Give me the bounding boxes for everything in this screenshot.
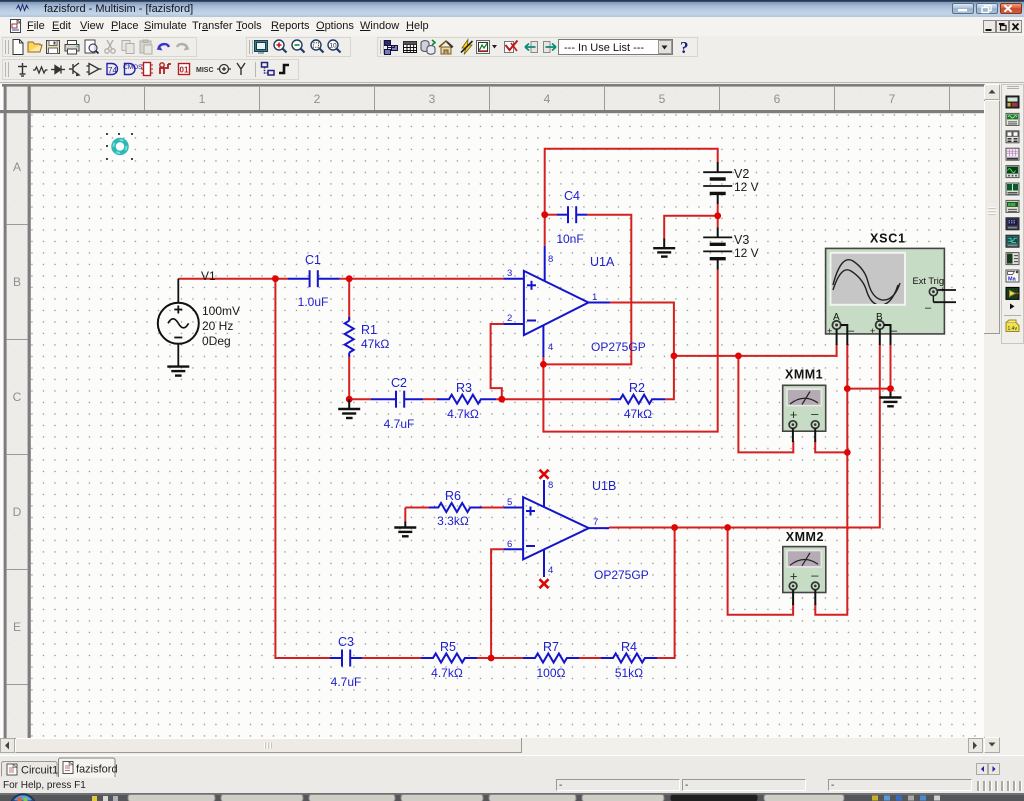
- svg-text:7: 7: [889, 92, 896, 106]
- capacitor C4: [557, 206, 587, 223]
- node V1/C1: [272, 275, 279, 282]
- wire U1B out node down to R4 right: [657, 528, 675, 659]
- wire V1 top to C1: [178, 278, 288, 280]
- icon: new file: [13, 40, 23, 55]
- scrollbar down arrow: [985, 738, 1000, 753]
- svg-text:6: 6: [507, 539, 512, 550]
- icon: copy (disabled): [122, 41, 134, 54]
- svg-text:3.3kΩ: 3.3kΩ: [437, 514, 469, 528]
- icon: place electromech Y: [237, 63, 245, 75]
- wire ground link A-/B-: [847, 388, 890, 390]
- svg-text:–: –: [925, 302, 932, 314]
- svg-text:12 V: 12 V: [734, 246, 759, 260]
- scrollbar up arrow: [985, 85, 1000, 100]
- op-amp U1B: [503, 480, 609, 577]
- svg-text:CMOS: CMOS: [123, 64, 143, 71]
- svg-text:2: 2: [314, 92, 321, 106]
- battery V3: [703, 228, 732, 270]
- svg-text:1: 1: [592, 292, 597, 303]
- svg-text:47kΩ: 47kΩ: [361, 337, 389, 351]
- icon: place source: [18, 63, 27, 76]
- icon: place transistor: [69, 63, 79, 76]
- instrument: wattmeter: [1006, 131, 1019, 143]
- svg-text:?: ?: [680, 38, 689, 57]
- resistor R6: [429, 503, 482, 512]
- svg-text:OP275GP: OP275GP: [594, 568, 649, 582]
- svg-text:+: +: [790, 407, 798, 422]
- task buttons: [128, 795, 844, 801]
- icon: grapher: [477, 41, 490, 54]
- ground near XSC1: [880, 392, 902, 406]
- svg-text:–: –: [891, 325, 898, 337]
- icon: hierarchy: [385, 41, 398, 55]
- start orb: [10, 794, 36, 801]
- svg-text:1.0uF: 1.0uF: [298, 295, 329, 309]
- svg-text:10: 10: [329, 43, 337, 50]
- svg-text:R2: R2: [629, 381, 645, 395]
- svg-text:8: 8: [548, 254, 553, 265]
- icon: open folder: [28, 42, 42, 52]
- icon: place indicator: [179, 64, 190, 75]
- battery V2: [703, 162, 732, 204]
- instrument: frequency counter: [1006, 200, 1019, 212]
- wire R6 left to ground: [405, 507, 429, 509]
- svg-text:4: 4: [548, 342, 553, 353]
- capacitor C3: [330, 650, 362, 667]
- svg-text:V3: V3: [734, 233, 749, 247]
- svg-text:+: +: [940, 285, 945, 294]
- sheet ruler bands: [6, 86, 984, 110]
- capacitor C1: [288, 270, 340, 287]
- svg-text:C: C: [13, 390, 22, 404]
- icon: cut (disabled): [105, 40, 115, 53]
- instrument: word generator: [1006, 218, 1019, 230]
- tab fazisford (active): [59, 758, 116, 777]
- dropdown arrow: [1010, 304, 1015, 310]
- svg-text:C3: C3: [338, 635, 354, 649]
- wire U1A output to R2 right: [610, 303, 674, 400]
- icon: print: [65, 41, 79, 55]
- resistor R5: [421, 654, 477, 663]
- svg-text:5: 5: [507, 497, 512, 508]
- wire C1 right to U1A pin3: [340, 278, 504, 280]
- instrument: bode plotter: [1006, 183, 1019, 195]
- node U1B out T: [671, 524, 678, 531]
- resistor R3: [437, 395, 496, 404]
- svg-text:R6: R6: [445, 489, 461, 503]
- wire feedback R3/R2 node to U1A pin2: [491, 324, 504, 399]
- svg-text:01: 01: [180, 66, 189, 75]
- quick launch icons: [92, 796, 97, 801]
- tab scroll arrows: [977, 764, 988, 775]
- icon: place RF: [217, 65, 231, 74]
- wire R3 right to R2 left: [496, 398, 610, 400]
- svg-text:4.7uF: 4.7uF: [331, 675, 362, 689]
- svg-text:--- In Use List ---: --- In Use List ---: [564, 42, 644, 54]
- icon: paste (disabled): [140, 40, 152, 54]
- wire pin6 riser: [491, 549, 503, 658]
- svg-text:V1: V1: [201, 269, 216, 283]
- instrument: oscilloscope: [1006, 148, 1019, 160]
- wire XSC1 B- down to ground: [890, 344, 892, 394]
- node pin4/V-: [540, 361, 547, 368]
- wire XSC1 B+ down to U1B out rail: [675, 344, 880, 528]
- wire C4 left lead: [545, 214, 557, 216]
- node XMM2+ tap: [724, 524, 731, 531]
- icon: component wizard house: [439, 41, 453, 54]
- icon: save floppy: [47, 41, 60, 54]
- svg-text:V2: V2: [734, 167, 749, 181]
- tray icons: [872, 796, 940, 801]
- svg-text:10nF: 10nF: [556, 232, 583, 246]
- wire R6 right to U1B pin5: [481, 507, 503, 509]
- capacitor C2: [371, 391, 423, 408]
- XMM1 terminal stubs: [793, 428, 815, 442]
- wire V1/C1 node down to C3 (bottom rail): [275, 279, 330, 658]
- node XMM1+ tap: [735, 353, 742, 360]
- svg-text:U1A: U1A: [590, 255, 615, 269]
- resistor R4: [601, 654, 657, 663]
- svg-text:6: 6: [774, 92, 781, 106]
- svg-text:R1: R1: [361, 323, 377, 337]
- XSC1 terminal stubs (black): [837, 325, 891, 345]
- svg-text:1.4v: 1.4v: [1008, 326, 1018, 332]
- node U1A out T: [671, 353, 678, 360]
- icon: simulate lightning: [461, 40, 473, 55]
- svg-text:7: 7: [593, 517, 598, 528]
- svg-text:A: A: [13, 160, 21, 174]
- node XMM1-/XMM2-: [844, 449, 851, 456]
- ground below R6: [394, 522, 416, 537]
- svg-text:888: 888: [1008, 202, 1016, 207]
- multimeter XMM2: [783, 547, 826, 593]
- instrument: logic converter: [1006, 253, 1019, 265]
- wire pin4 node down to V- rail to V3 bottom: [543, 270, 717, 432]
- XMM2 terminal stubs: [793, 590, 815, 605]
- svg-text:D: D: [13, 505, 22, 519]
- separator: [1004, 315, 1021, 317]
- svg-text:4.7kΩ: 4.7kΩ: [431, 666, 463, 680]
- icon: place TTL: [107, 64, 118, 76]
- wire R5 right to R7 left: [477, 657, 523, 659]
- instrument: multimeter: [1006, 96, 1019, 108]
- svg-text:+: +: [870, 326, 875, 336]
- wire V+ top rail from C4 node to V2: [545, 149, 718, 246]
- icon: place misc digital: [141, 63, 153, 76]
- svg-text:47kΩ: 47kΩ: [624, 407, 652, 421]
- sheet frame lines: [2, 84, 984, 87]
- svg-text:C4: C4: [564, 189, 580, 203]
- instruments toolbar handle: [1007, 87, 1019, 89]
- wire XMM1 minus: [815, 441, 847, 452]
- ground below V1: [167, 367, 189, 376]
- wire V2/V3 mid node to ground: [717, 204, 719, 228]
- ruler ticks: [6, 87, 950, 685]
- oscilloscope XSC1: [826, 248, 956, 337]
- svg-text:–: –: [848, 325, 855, 337]
- svg-text:–: –: [811, 406, 819, 421]
- V1 labels: [201, 269, 240, 348]
- multimeter XMM1: [783, 385, 826, 431]
- svg-text:R3: R3: [456, 381, 472, 395]
- icon: undo: [157, 43, 170, 51]
- scrollbar thumb: [985, 101, 1000, 334]
- icon: place mixed: [160, 63, 171, 74]
- icon: place CMOS: [123, 64, 143, 75]
- svg-text:100mV: 100mV: [202, 304, 240, 318]
- svg-text:R4: R4: [621, 640, 637, 654]
- node C1/R1/pin3: [346, 275, 353, 282]
- svg-text:20 Hz: 20 Hz: [202, 319, 233, 333]
- svg-text:XSC1: XSC1: [870, 232, 906, 246]
- wire ground node to C2 left: [349, 398, 371, 400]
- icon: zoom fit: [328, 40, 341, 53]
- h-scrollbar thumb: [16, 739, 522, 753]
- instrument: LabVIEW: [1006, 287, 1019, 299]
- icon: place analog (op-amp): [87, 64, 102, 75]
- svg-text:C2: C2: [391, 376, 407, 390]
- instrument: logic analyzer: [1006, 235, 1019, 247]
- svg-text:74: 74: [108, 66, 117, 75]
- wire U1B out stub: [609, 527, 675, 529]
- wire to XMM1 plus: [738, 356, 793, 453]
- svg-text:51kΩ: 51kΩ: [615, 666, 643, 680]
- instrument: 4ch scope: [1006, 166, 1019, 178]
- node R5/R7/pin6: [488, 655, 495, 662]
- node C4/V+: [541, 211, 548, 218]
- icon: database: [421, 40, 435, 54]
- icon: transfer forward: [544, 42, 557, 53]
- svg-text:Ma: Ma: [1008, 277, 1017, 283]
- svg-text:4: 4: [548, 565, 553, 576]
- icon: bus: [279, 65, 289, 73]
- ground below R1/C2: [338, 399, 360, 418]
- svg-text:C1: C1: [305, 253, 321, 267]
- AC source V1: [158, 279, 199, 367]
- icon: zoom in: [274, 40, 287, 53]
- ground between V2 V3: [653, 239, 675, 257]
- resistor R2: [611, 395, 666, 404]
- icon: transfer back: [525, 42, 538, 53]
- instrument: measurement probe: [1006, 320, 1019, 332]
- wire U1A output node to XSC1 A+: [674, 344, 837, 356]
- tab Circuit1: [2, 762, 58, 777]
- node R3/R2/fb: [498, 396, 505, 403]
- svg-text:3: 3: [429, 92, 436, 106]
- svg-text:E: E: [13, 620, 21, 634]
- svg-text:MISC: MISC: [196, 67, 214, 74]
- ruler numbers: [13, 92, 896, 634]
- svg-text:XMM2: XMM2: [786, 530, 824, 544]
- svg-text:4.7kΩ: 4.7kΩ: [447, 407, 479, 421]
- icon: ERC check: [505, 41, 518, 53]
- wire XMM2 plus branch: [728, 528, 794, 615]
- svg-text:OP275GP: OP275GP: [591, 340, 646, 354]
- svg-text:100Ω: 100Ω: [537, 666, 566, 680]
- svg-text:1: 1: [199, 92, 206, 106]
- resistor R1 (vertical): [345, 317, 354, 357]
- wire C4 right to pin4 node: [543, 215, 631, 365]
- toolbar group frames: [3, 38, 197, 57]
- icon: zoom out: [292, 40, 305, 53]
- selected annotation swoosh: [106, 133, 133, 160]
- svg-text:0: 0: [84, 92, 91, 106]
- instrument: function generator: [1006, 113, 1019, 125]
- svg-text:R5: R5: [440, 640, 456, 654]
- icon: fullscreen monitor: [255, 41, 268, 55]
- icon: redo (disabled): [177, 44, 190, 50]
- svg-text:4.7uF: 4.7uF: [384, 417, 415, 431]
- wire XSC1 A- to ground node: [815, 344, 847, 615]
- icon: zoom area: [311, 40, 324, 53]
- svg-text:Circuit1: Circuit1: [21, 765, 58, 777]
- h-scrollbar left arrow: [1, 739, 15, 753]
- wire C1/R1 node down: [348, 279, 350, 321]
- wire R1 bottom to ground node: [348, 356, 350, 400]
- no-connect X pin4: [540, 579, 549, 588]
- svg-text:12 V: 12 V: [734, 180, 759, 194]
- icon: spreadsheet grid: [404, 42, 417, 53]
- svg-text:0Deg: 0Deg: [202, 334, 231, 348]
- wire bottom rail C3 to R5: [362, 657, 421, 659]
- svg-text:U1B: U1B: [592, 479, 616, 493]
- svg-text:R7: R7: [543, 640, 559, 654]
- MDI child window buttons: [983, 20, 1023, 33]
- wire C2 right to R3 left: [423, 398, 437, 400]
- icon: hierarchical block: [262, 63, 275, 76]
- h-scrollbar right arrow: [969, 739, 983, 753]
- In Use List combo: [559, 40, 673, 55]
- icon: place diode: [51, 66, 65, 74]
- wire R7 right to R4 left: [579, 657, 601, 659]
- icon: print preview: [85, 40, 99, 54]
- svg-text:B: B: [13, 275, 21, 289]
- svg-text:fazisford: fazisford: [76, 764, 118, 776]
- node B-/gnd: [887, 385, 894, 392]
- svg-text:3: 3: [507, 268, 512, 279]
- svg-text:8: 8: [548, 480, 553, 491]
- svg-text:2: 2: [507, 313, 512, 324]
- svg-text:+: +: [827, 326, 832, 336]
- node V2/V3 mid: [714, 212, 721, 219]
- icon: place basic (resistor): [33, 67, 48, 73]
- op-amp U1A: [503, 246, 610, 357]
- svg-text:4: 4: [544, 92, 551, 106]
- svg-text:XMM1: XMM1: [785, 368, 823, 382]
- no-connect X pin8: [540, 470, 549, 479]
- svg-text:–: –: [811, 567, 819, 582]
- resistor R7: [523, 654, 579, 663]
- instrument: IV analyzer: [1006, 270, 1019, 283]
- svg-text:+: +: [790, 568, 798, 583]
- node R1/C2/gnd: [346, 396, 353, 403]
- svg-text:5: 5: [659, 92, 666, 106]
- node A-/gnd link: [844, 385, 851, 392]
